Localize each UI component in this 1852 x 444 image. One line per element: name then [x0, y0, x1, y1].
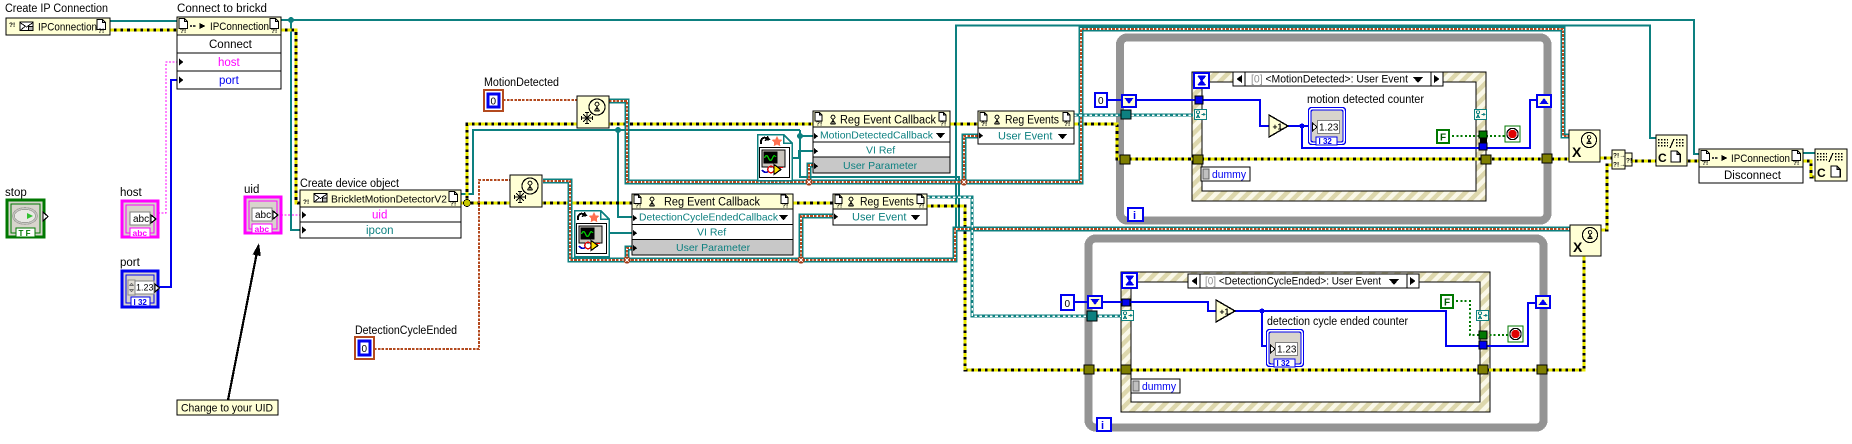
svg-text:port: port — [219, 75, 240, 87]
wire: error second run to loop2 and X2 — [464, 200, 1585, 371]
svg-text:MotionDetectedCallback: MotionDetectedCallback — [820, 130, 934, 142]
struct2 blue tunnel right — [1479, 341, 1487, 349]
loop1 teal tunnel — [1121, 110, 1131, 119]
struct1 timeout terminal — [1194, 73, 1209, 88]
svg-text:Change to your UID: Change to your UID — [181, 403, 273, 415]
svg-text:dummy: dummy — [1142, 381, 1176, 393]
svg-text:F: F — [1444, 298, 1450, 309]
loop1 error tunnel right — [1542, 154, 1552, 163]
node Create User Event 1 — [577, 96, 609, 128]
svg-text:?!→: ?!→ — [1613, 162, 1626, 169]
wire: user event ref dashed to loop2 — [927, 197, 1121, 316]
svg-text:User Event: User Event — [998, 131, 1052, 143]
svg-text:Reg Events: Reg Events — [860, 197, 914, 209]
label uid — [244, 184, 259, 196]
indicator motion detected counter — [1309, 108, 1346, 147]
struct2 timeout terminal — [1122, 273, 1137, 288]
local variable dummy 2 — [1131, 379, 1180, 393]
wire: green boolean F to stop 2 — [1452, 301, 1508, 335]
label Create IP Connection — [5, 3, 108, 15]
event structure 2 frame — [1121, 272, 1490, 412]
label stop — [5, 187, 27, 199]
svg-text:Reg Event Callback: Reg Event Callback — [664, 197, 760, 209]
svg-text:Connect: Connect — [209, 39, 253, 51]
label Connect to brickd — [177, 3, 267, 15]
svg-text:1.23: 1.23 — [136, 283, 154, 293]
svg-text:0: 0 — [1098, 96, 1104, 107]
struct2 green tunnel right — [1479, 331, 1487, 339]
svg-text:?!: ?! — [1626, 158, 1632, 165]
node Create device object — [300, 190, 461, 238]
local variable dummy 1 — [1201, 167, 1250, 181]
iteration terminal loop2 — [1097, 418, 1111, 432]
iteration terminal loop1 — [1128, 208, 1143, 222]
wire: uid string wire — [281, 214, 300, 216]
wire: error CreateIP to Connect — [110, 29, 177, 32]
struct2 error tunnel right — [1478, 365, 1488, 374]
svg-text:C: C — [1817, 166, 1826, 180]
svg-text:VI Ref: VI Ref — [697, 227, 726, 239]
constant MotionDetected — [484, 90, 503, 111]
loop1 shift register right — [1537, 95, 1551, 107]
wire: teal refnum Connect to Disconnect (top run) — [281, 20, 1699, 154]
node close callbacks 1 — [1656, 135, 1687, 166]
svg-text:X: X — [1573, 239, 1583, 255]
constant F loop1 — [1437, 130, 1449, 144]
node Create IP Connection — [6, 18, 110, 35]
wire: red constant DetectionCycleEnded to create user event 2 — [374, 180, 510, 349]
loop2 shift register right — [1536, 296, 1550, 308]
control stop — [7, 200, 48, 238]
loop1 error tunnel left — [1120, 155, 1130, 164]
struct1 green tunnel right — [1479, 131, 1487, 138]
node Reg Events 2 — [833, 194, 927, 225]
svg-text:abc: abc — [255, 224, 270, 234]
static VI reference 1 — [758, 135, 793, 181]
wire: teal branch down to ipcon input — [288, 17, 300, 230]
wire: composite A branch to User Parameter 1 — [809, 165, 813, 182]
node close ipcon — [1815, 149, 1847, 181]
svg-text:User Parameter: User Parameter — [676, 242, 751, 254]
control port — [122, 271, 160, 307]
static VI reference 2 — [575, 211, 610, 257]
while loop 2 border — [1089, 239, 1544, 428]
wire: blue shift register init 1 — [1106, 100, 1269, 126]
loop2 shift register left — [1088, 296, 1102, 308]
node Disconnect — [1699, 149, 1803, 183]
label port — [120, 257, 141, 269]
constant 0 loop2 — [1061, 295, 1074, 310]
stop button terminal loop1 — [1505, 126, 1520, 142]
svg-text:IPConnection: IPConnection — [38, 22, 97, 34]
node unregister X 1 — [1569, 130, 1600, 162]
wire: blue shift register init 2 — [1074, 302, 1216, 311]
wire: teal refnum CreateIP to Connect — [110, 20, 177, 22]
svg-text:abc: abc — [255, 210, 271, 221]
svg-text:uid: uid — [244, 184, 259, 196]
svg-text:C: C — [1658, 151, 1667, 165]
svg-text:BrickletMotionDetectorV2: BrickletMotionDetectorV2 — [331, 194, 447, 206]
increment node 2 — [1216, 300, 1235, 322]
svg-text:port: port — [120, 257, 141, 269]
wire: VI reference 2 output — [610, 232, 632, 234]
svg-text:Create IP Connection: Create IP Connection — [5, 3, 108, 15]
struct1 error tunnel left — [1193, 155, 1203, 164]
svg-text:+1: +1 — [1220, 307, 1230, 317]
svg-text:+1: +1 — [1273, 122, 1283, 132]
struct2 error tunnel left — [1121, 365, 1131, 374]
svg-text:host: host — [120, 187, 143, 199]
svg-text:0: 0 — [1065, 299, 1071, 310]
label motion detected counter — [1307, 94, 1424, 106]
node Connect to brickd — [177, 17, 281, 89]
svg-text:[0] <MotionDetected>: User Eve: [0] <MotionDetected>: User Event — [1251, 74, 1408, 86]
annotation arrow to uid — [228, 243, 261, 400]
svg-text:MotionDetected: MotionDetected — [484, 77, 559, 89]
svg-text:Reg Event Callback: Reg Event Callback — [840, 115, 936, 127]
svg-text:Create device object: Create device object — [300, 178, 400, 190]
svg-text:IPConnection: IPConnection — [210, 21, 269, 33]
wire: composite B branch to Reg Events 2 — [623, 216, 833, 264]
node merge errors — [1612, 150, 1632, 169]
wire: green boolean F to stop 1 — [1448, 135, 1506, 137]
svg-text:IPConnection: IPConnection — [1731, 153, 1790, 165]
svg-text:0: 0 — [362, 344, 368, 355]
wire: red constant MotionDetected to create user event 1 — [503, 99, 578, 101]
svg-text:User Parameter: User Parameter — [843, 160, 918, 172]
event structure 1 frame — [1192, 72, 1486, 201]
svg-text:User Event: User Event — [852, 212, 906, 224]
svg-text:T F: T F — [19, 229, 31, 238]
loop2 error tunnel right — [1537, 365, 1547, 374]
svg-text:Connect to brickd: Connect to brickd — [177, 3, 267, 15]
struct2 blue tunnel left — [1122, 299, 1130, 306]
node unregister X 2 — [1570, 225, 1601, 256]
svg-text:i: i — [1133, 210, 1136, 222]
loop1 shift register left — [1122, 95, 1136, 107]
wire: port numeric wire — [158, 80, 177, 287]
svg-text:DetectionCycleEnded: DetectionCycleEnded — [355, 325, 457, 337]
label Create device object — [300, 178, 400, 190]
struct2 dynamic event terminal right — [1477, 311, 1489, 321]
svg-text:DetectionCycleEndedCallback: DetectionCycleEndedCallback — [639, 212, 779, 224]
svg-text:Disconnect: Disconnect — [1724, 170, 1782, 182]
svg-text:I 32: I 32 — [134, 298, 148, 307]
loop2 error tunnel left — [1084, 365, 1094, 374]
wire: teal refnum second top run to close node — [956, 26, 1656, 230]
svg-text:F: F — [1440, 133, 1446, 144]
struct2 dynamic event terminal left — [1122, 311, 1134, 321]
svg-text:host: host — [218, 57, 241, 69]
svg-text:0: 0 — [491, 97, 497, 108]
wire: composite A branch to Reg Events 1 — [805, 136, 978, 186]
svg-text:abc: abc — [133, 214, 149, 225]
svg-text:Reg Events: Reg Events — [1005, 115, 1059, 127]
annotation Change to your UID — [177, 400, 278, 415]
wire: error Connect down to device object — [281, 30, 300, 203]
wire: error main run device to loop1 and X1 — [461, 124, 1569, 203]
svg-text:stop: stop — [5, 187, 27, 199]
svg-text:dummy: dummy — [1212, 169, 1246, 181]
increment node 1 — [1269, 115, 1288, 137]
svg-text:motion detected counter: motion detected counter — [1307, 94, 1424, 106]
svg-text:detection cycle ended counter: detection cycle ended counter — [1267, 316, 1408, 328]
stop button terminal loop2 — [1508, 326, 1523, 342]
control uid — [245, 197, 281, 234]
wire: teal Disconnect to final close node — [1803, 152, 1815, 154]
wire: user event composite A — [609, 29, 1569, 182]
while loop 1 border — [1120, 38, 1548, 221]
struct1 dynamic event terminal right — [1475, 110, 1487, 120]
wire: user event ref dashed to loop1 — [1074, 113, 1193, 116]
node Reg Event Callback 2 — [632, 194, 793, 255]
control host — [122, 201, 158, 238]
svg-text:ipcon: ipcon — [366, 225, 394, 237]
wire: VI reference 1 output — [793, 151, 813, 158]
struct1 dynamic event terminal left — [1195, 110, 1207, 120]
wire: host string wire — [158, 62, 177, 213]
wire: error X1 to merge to Disconnect chain — [1600, 158, 1815, 230]
loop2 teal tunnel — [1087, 311, 1097, 321]
constant F loop2 — [1441, 295, 1453, 309]
node Create User Event 2 — [510, 175, 542, 207]
label detection cycle ended counter — [1267, 316, 1408, 328]
struct1 error tunnel right — [1481, 155, 1491, 164]
label DetectionCycleEnded — [355, 325, 457, 337]
node Reg Events 1 — [978, 111, 1074, 144]
wire: blue increment 2 output — [1234, 303, 1536, 346]
svg-text:[0] <DetectionCycleEnded>: Use: [0] <DetectionCycleEnded>: User Event — [1205, 276, 1381, 288]
wire: teal device ipcon chain — [461, 127, 959, 229]
struct2 header label — [1188, 274, 1419, 288]
indicator detection cycle ended counter — [1267, 330, 1304, 369]
svg-text:X: X — [1572, 144, 1582, 160]
svg-text:VI Ref: VI Ref — [866, 145, 895, 157]
constant DetectionCycleEnded — [355, 337, 374, 359]
wire: user event composite B — [543, 181, 1570, 260]
struct1 blue tunnel left — [1195, 96, 1203, 104]
wire: composite B branch to User Parameter 2 — [627, 248, 632, 260]
struct1 black tunnel right — [1480, 138, 1487, 143]
struct1 blue tunnel right — [1479, 143, 1487, 150]
node Reg Event Callback 1 — [813, 111, 950, 173]
label host — [120, 187, 143, 199]
label MotionDetected — [484, 77, 559, 89]
svg-text:i: i — [1101, 420, 1104, 432]
svg-text:abc: abc — [133, 228, 148, 238]
constant 0 loop1 — [1095, 93, 1107, 107]
wire: blue increment 1 output — [1287, 100, 1537, 148]
svg-text:uid: uid — [372, 210, 387, 222]
svg-text:?!→: ?!→ — [1613, 153, 1626, 160]
struct1 header label — [1233, 72, 1443, 86]
